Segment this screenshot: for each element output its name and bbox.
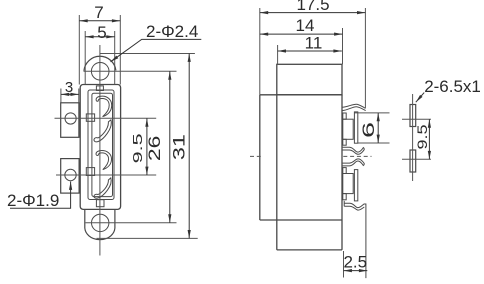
svg-text:7: 7 bbox=[94, 3, 103, 22]
svg-text:14: 14 bbox=[296, 16, 315, 35]
svg-text:26: 26 bbox=[145, 136, 164, 162]
svg-text:2-Φ2.4: 2-Φ2.4 bbox=[146, 22, 198, 41]
svg-text:17.5: 17.5 bbox=[296, 0, 329, 14]
svg-text:9.5: 9.5 bbox=[414, 124, 430, 149]
svg-text:2-6.5x1: 2-6.5x1 bbox=[424, 77, 481, 96]
svg-text:2.5: 2.5 bbox=[343, 252, 367, 271]
svg-text:9.5: 9.5 bbox=[131, 133, 145, 163]
svg-text:31: 31 bbox=[170, 134, 189, 160]
svg-text:6: 6 bbox=[359, 122, 378, 138]
svg-text:3: 3 bbox=[65, 79, 73, 96]
svg-text:5: 5 bbox=[97, 23, 106, 42]
svg-text:2-Φ1.9: 2-Φ1.9 bbox=[7, 191, 59, 210]
svg-text:11: 11 bbox=[305, 34, 323, 53]
